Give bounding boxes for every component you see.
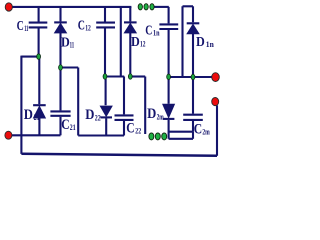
svg-text:C: C bbox=[126, 121, 134, 137]
wire: top rail segment 2 bbox=[155, 6, 169, 8]
svg-text:C: C bbox=[17, 18, 24, 33]
capacitor C21 bbox=[50, 70, 70, 136]
node: junction dot D12 bbox=[128, 74, 132, 80]
wire: node B horizontal (D11 cathode) bbox=[61, 66, 79, 68]
svg-text:D: D bbox=[61, 35, 70, 50]
wire: top rail bbox=[11, 6, 131, 8]
svg-text:21: 21 bbox=[70, 123, 76, 132]
terminal: output lower-right bbox=[212, 98, 219, 106]
wire: input bottom wire bbox=[12, 134, 61, 136]
diode D21 bbox=[33, 58, 46, 136]
svg-text:2m: 2m bbox=[157, 112, 164, 122]
wire: loop box joining D2m and C2m bottoms bbox=[169, 132, 193, 139]
svg-text:C: C bbox=[145, 23, 152, 38]
node: junction dot C1n/D2m bbox=[167, 74, 171, 80]
node: junction dot C11 bbox=[37, 54, 41, 60]
wire: node D12 cathode horizontal bbox=[130, 75, 145, 77]
svg-text:C: C bbox=[194, 121, 202, 137]
wire: node A horizontal (C12 junction) bbox=[105, 75, 124, 77]
wire: bottom segment stage2 bbox=[78, 134, 124, 136]
wire: D12 cathode drop bbox=[144, 77, 146, 135]
capacitor C2m bbox=[183, 77, 203, 132]
node: junction dot D1n/C2m bbox=[191, 74, 195, 80]
wire: node B drop bbox=[77, 68, 79, 136]
terminal: output upper-right bbox=[212, 73, 220, 82]
svg-text:12: 12 bbox=[140, 40, 146, 49]
capacitor C11 bbox=[29, 7, 48, 56]
svg-text:D: D bbox=[85, 107, 94, 123]
svg-text:D: D bbox=[131, 34, 140, 49]
continuation dots bottom bbox=[149, 133, 154, 140]
node: junction dot C12/D22 bbox=[103, 74, 107, 80]
terminal: input bottom-left bbox=[5, 131, 12, 139]
svg-text:D: D bbox=[147, 106, 156, 122]
wire: right riser to output terminal bbox=[216, 105, 218, 156]
diode D11 bbox=[54, 7, 67, 66]
wire: right mid horizontal (output node) bbox=[169, 76, 213, 78]
svg-text:22: 22 bbox=[135, 127, 141, 136]
node: junction dot D11/C21 bbox=[59, 65, 63, 71]
terminal: input top-left bbox=[5, 3, 12, 11]
svg-text:C: C bbox=[61, 117, 69, 133]
wire: bottom rail bbox=[21, 154, 217, 156]
wire: left vertical drop bbox=[20, 56, 22, 154]
svg-text:11: 11 bbox=[24, 24, 28, 33]
capacitor C12 bbox=[96, 7, 115, 75]
svg-text:C: C bbox=[78, 17, 85, 32]
svg-text:22: 22 bbox=[95, 112, 101, 122]
diode D12 bbox=[124, 7, 137, 75]
svg-text:D: D bbox=[24, 107, 33, 123]
svg-text:11: 11 bbox=[70, 41, 75, 50]
continuation dots top rail bbox=[138, 4, 142, 10]
wire: D12 left vertical bbox=[120, 7, 122, 77]
svg-text:2m: 2m bbox=[202, 128, 210, 137]
svg-text:1n: 1n bbox=[153, 29, 160, 38]
svg-text:D: D bbox=[196, 34, 205, 49]
diode D22 bbox=[100, 79, 112, 136]
diode D1n bbox=[183, 6, 200, 77]
wire: mid-left horizontal node bbox=[21, 56, 38, 58]
capacitor C22 bbox=[115, 77, 134, 136]
capacitor C1n bbox=[159, 7, 178, 75]
svg-text:12: 12 bbox=[85, 24, 91, 33]
svg-text:1n: 1n bbox=[206, 39, 214, 49]
diode D2m bbox=[163, 79, 175, 139]
svg-text:21: 21 bbox=[34, 112, 40, 122]
